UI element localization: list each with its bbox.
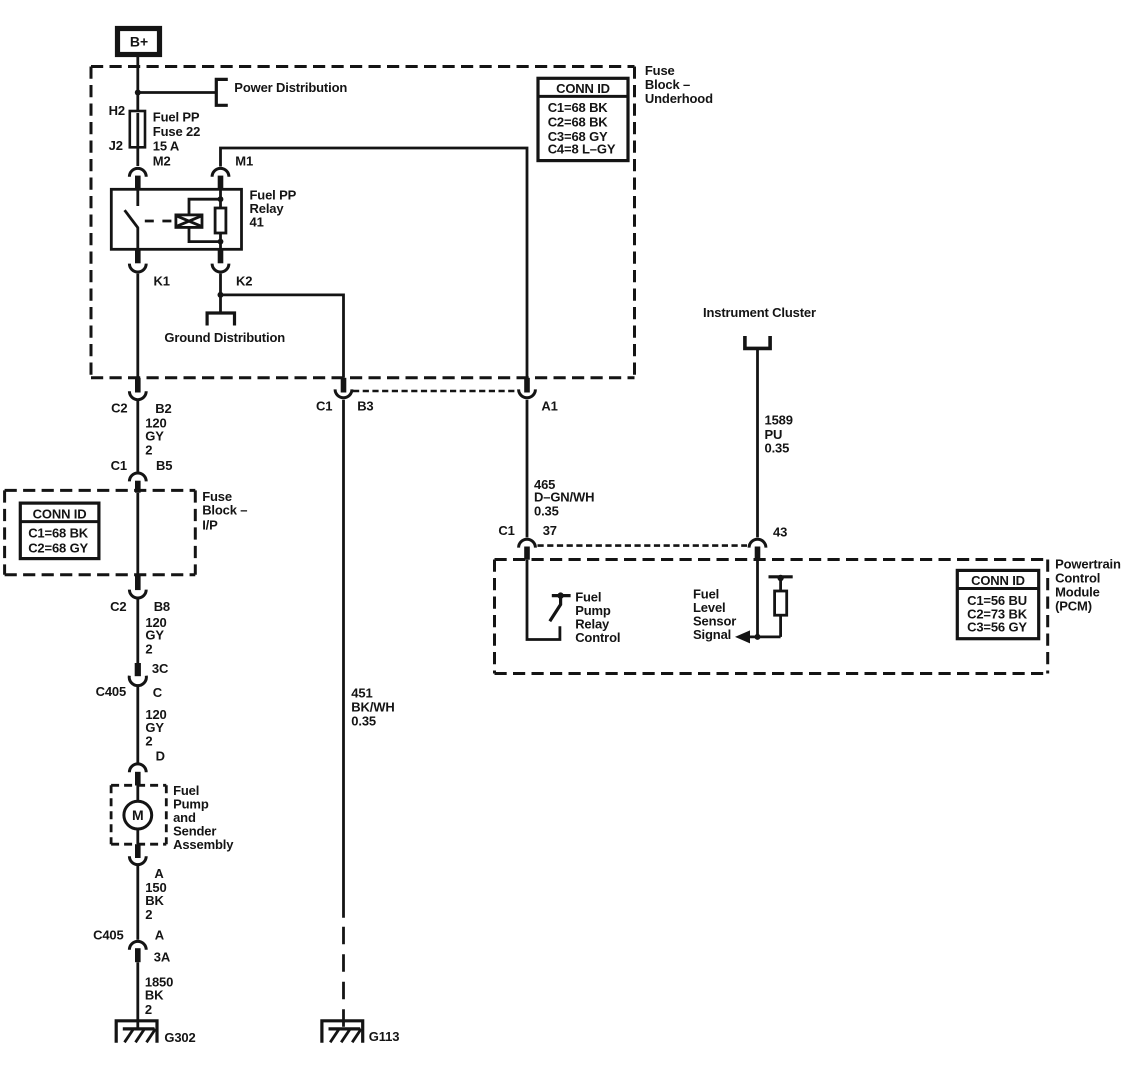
wire label 1589 PU 0.35 [765,412,793,455]
svg-text:2: 2 [145,907,152,922]
wire to power distribution [138,91,217,94]
svg-text:CONN ID: CONN ID [556,81,610,96]
svg-text:43: 43 [773,525,787,540]
svg-text:C1: C1 [111,458,127,473]
svg-text:B8: B8 [154,599,170,614]
ground G113 [322,1021,363,1043]
connector K2 male pin [218,249,224,263]
svg-text:G113: G113 [369,1029,400,1044]
svg-text:0.35: 0.35 [765,441,790,456]
CONN ID table PCM [957,570,1038,638]
wire 3A to G302 [136,962,139,1029]
connector C1/B3 male pin [341,378,347,393]
svg-text:B+: B+ [130,34,148,50]
relay actuator dashed link [145,220,176,223]
svg-text:(PCM): (PCM) [1055,599,1092,614]
driver switch fuel pump relay control [550,592,571,621]
wire label 120 GY 2 (B8-3C) [145,615,166,657]
svg-text:0.35: 0.35 [351,714,376,729]
battery feed B+ [118,29,160,55]
connector M2 male pin [135,176,141,190]
svg-text:I/P: I/P [202,517,218,532]
wire K2 over to B3 [221,295,344,378]
wire into pump [136,786,139,803]
resistor inside relay [215,208,226,233]
svg-text:Signal: Signal [693,627,731,642]
svg-text:D: D [156,748,165,763]
connector 3C male pin [135,663,141,676]
connector C2/B8 male pin [135,575,141,590]
connector D male pin [135,772,141,786]
svg-text:M2: M2 [153,153,171,168]
svg-text:C2=68 BK: C2=68 BK [548,115,609,130]
svg-text:J2: J2 [109,138,123,153]
svg-text:0.35: 0.35 [534,504,559,519]
wire coil top to resistor top [189,199,221,215]
wire label 465 D-GN/WH 0.35 [534,477,594,519]
wire B3 down (451) [342,400,345,918]
svg-text:C1=68 BK: C1=68 BK [28,526,89,541]
Fuse Block I/P dashed enclosure [5,490,196,574]
connector K1 female half [129,264,146,272]
label Powertrain Control Module (PCM) [1055,557,1121,614]
connector C405/A male pin (3A) [135,948,141,962]
wire C to D [136,687,139,763]
svg-text:CONN ID: CONN ID [33,506,87,521]
svg-text:Block –: Block – [202,503,247,518]
svg-text:41: 41 [250,215,264,230]
svg-text:BK: BK [145,988,164,1003]
connector M1 male pin [218,176,224,190]
svg-text:2: 2 [145,734,152,749]
svg-text:C4=8 L–GY: C4=8 L–GY [548,142,616,157]
Powertrain Control Module dashed enclosure [495,560,1048,674]
connector A1 male pin [524,378,530,393]
wire B2 to B5 [136,400,139,472]
svg-text:Fuse: Fuse [202,489,232,504]
Fuse Block Underhood dashed enclosure [91,67,635,378]
connector 43 female half [749,539,766,547]
svg-text:37: 37 [543,523,557,538]
connector pump-out female half [129,856,146,864]
wire cluster to pin 43 [756,348,759,537]
node pull-up [777,575,783,581]
svg-text:Module: Module [1055,585,1100,600]
svg-text:C1: C1 [316,398,332,413]
svg-text:A: A [155,927,165,942]
wire label 120 GY 2 (B2-B5) [145,416,166,458]
svg-text:K1: K1 [154,273,170,288]
wire A1 down to pin 37 [526,400,529,538]
label Fuse Block - I/P [202,489,247,533]
svg-text:M: M [132,807,144,823]
svg-text:BK: BK [145,893,164,908]
svg-text:CONN ID: CONN ID [971,573,1025,588]
svg-text:C405: C405 [93,927,123,942]
dotted connector tie 37 to 43 [538,544,748,547]
wire through relay resistor branch [219,189,222,249]
connector C1/B5 female half [129,473,146,481]
wire B+ to fuse [136,57,139,166]
connector C405 female half at 3C [129,676,146,686]
wire pin 37 into PCM [527,560,560,640]
svg-text:Ground Distribution: Ground Distribution [164,330,285,345]
svg-text:2: 2 [145,442,152,457]
svg-text:A: A [154,866,164,881]
wire coil bottom to resistor bottom [189,227,221,241]
svg-text:C2=68 GY: C2=68 GY [28,541,88,556]
Fuel Pump and Sender Assembly dashed enclosure [111,785,166,844]
wire label 1850 BK 2 [145,974,173,1017]
svg-text:451: 451 [351,686,372,701]
svg-text:C1=68 BK: C1=68 BK [548,100,609,115]
svg-text:Control: Control [575,630,620,645]
wire label 150 BK 2 [145,880,166,922]
node coil/resistor bottom [218,239,224,245]
svg-text:Fuel PP: Fuel PP [153,110,200,125]
connector C2/B2 male pin [135,378,141,393]
label Fuel Level Sensor Signal [693,587,736,643]
relay coil [176,215,202,228]
connector C2/B2 female half [129,391,146,399]
dotted connector tie B3 to A1 [353,390,518,393]
svg-text:Underhood: Underhood [645,91,713,106]
wire K1 down to B2 [136,274,139,378]
wire rail to resistor [779,577,782,637]
wire label 120 GY 2 (C-D) [145,707,166,749]
svg-text:C3=56 GY: C3=56 GY [967,620,1027,635]
svg-text:1589: 1589 [765,412,793,427]
svg-text:B3: B3 [357,398,373,413]
svg-text:K2: K2 [236,273,252,288]
svg-text:2: 2 [145,642,152,657]
svg-text:Instrument Cluster: Instrument Cluster [703,305,816,320]
wire through I/P box [136,493,139,575]
svg-text:3C: 3C [152,661,169,676]
svg-text:Fuse: Fuse [645,63,675,78]
fuel pump motor M [124,801,152,829]
svg-text:GY: GY [145,429,164,444]
connector A1 female half [519,389,536,397]
svg-text:Fuse 22: Fuse 22 [153,124,200,139]
relay box Fuel PP Relay 41 [111,189,241,249]
connector C405/A female half [129,941,146,949]
pull-up rail bar [769,575,793,578]
connector D female half [129,764,146,772]
label Fuse Block - Underhood [645,63,713,106]
wire out of pump [136,829,139,844]
svg-text:Block –: Block – [645,77,690,92]
node coil/resistor top [218,196,224,202]
connector M2 female half [129,168,146,176]
connector pump-out male pin [135,844,141,858]
wire M1 up and over to A1 [221,148,528,378]
svg-text:H2: H2 [109,103,125,118]
svg-text:M1: M1 [235,153,253,168]
CONN ID table Underhood [538,78,628,160]
connector C2/B8 female half [129,590,146,598]
arrow fuel level sensor signal [735,630,781,643]
off-page bracket Ground Distribution [207,313,234,326]
label Fuel PP Fuse 22 15 A [153,110,200,154]
svg-text:B2: B2 [155,401,171,416]
svg-text:Powertrain: Powertrain [1055,557,1121,572]
fuse Fuel PP Fuse 22 15A [130,111,145,147]
svg-text:Assembly: Assembly [173,837,234,852]
connector C1/37 male pin [524,547,530,560]
wire A to C405 A [136,865,139,940]
ground G302 [116,1021,157,1043]
svg-text:G302: G302 [164,1030,195,1045]
svg-text:A1: A1 [541,398,557,413]
svg-text:Control: Control [1055,571,1100,586]
connector C1/B3 female half [335,389,352,397]
connector C1/37 female half [519,539,536,547]
svg-text:Power Distribution: Power Distribution [234,80,347,95]
node junction at power distribution tap [135,90,141,96]
label Fuel Pump Relay Control [575,590,620,646]
wire K2 down to junction [219,274,222,313]
svg-text:GY: GY [145,720,164,735]
node K2 ground tap [218,292,224,298]
connector 43 male pin [755,547,761,560]
svg-text:C2: C2 [111,400,127,415]
label Fuel PP Relay 41 [250,188,297,230]
svg-text:2: 2 [145,1002,152,1017]
connector K2 female half [212,264,229,272]
svg-text:C: C [153,685,163,700]
connector M1 female half [212,168,229,176]
off-page bracket Power Distribution [216,79,228,105]
svg-text:3A: 3A [154,950,171,965]
connector K1 male pin [135,249,141,263]
wire B8 to 3C [136,597,139,663]
svg-text:D–GN/WH: D–GN/WH [534,490,594,505]
wire label 451 BK/WH 0.35 [351,686,394,729]
node sensor signal junction [755,634,761,640]
svg-text:B5: B5 [156,458,172,473]
label Fuel Pump and Sender Assembly [173,783,234,852]
svg-text:BK/WH: BK/WH [351,700,394,715]
svg-text:C405: C405 [96,684,126,699]
off-page bracket Instrument Cluster [745,336,770,348]
CONN ID table I/P [20,503,99,558]
svg-text:C2: C2 [110,599,126,614]
dashed wire segment to G113 [342,927,345,1029]
svg-text:C1: C1 [498,523,514,538]
wire pin 43 into PCM [756,560,759,637]
svg-text:15 A: 15 A [153,138,180,153]
relay switch contact [125,189,139,249]
svg-text:GY: GY [145,628,164,643]
connector C1/B5 male pin [135,481,141,493]
resistor fuel level pull-up [775,591,787,615]
